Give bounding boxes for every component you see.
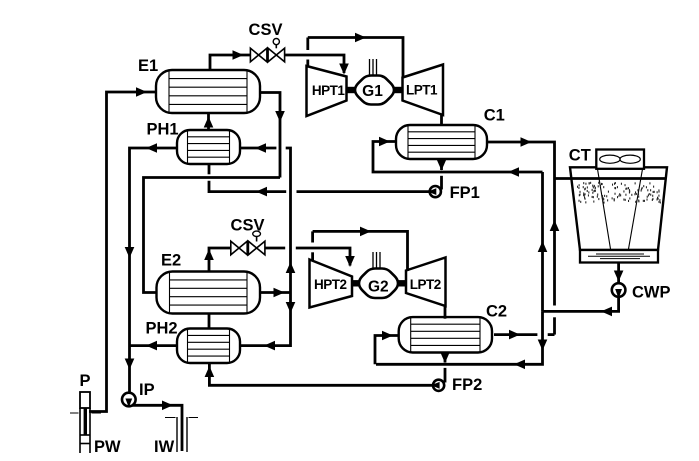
cooling tower spray dots <box>577 182 661 204</box>
arrow PH1 out <box>146 143 157 153</box>
arrow E2 out <box>274 288 285 298</box>
svg-text:FP2: FP2 <box>452 376 482 394</box>
cooling tower basin <box>580 250 658 263</box>
label LPT2 <box>410 277 441 292</box>
svg-text:FP1: FP1 <box>450 184 480 202</box>
wire FP1 to PH1 left seg <box>209 181 286 192</box>
label PH2 <box>146 320 178 338</box>
svg-text:LPT2: LPT2 <box>410 277 441 292</box>
wire crossover 1 <box>308 38 403 79</box>
label P <box>80 372 91 390</box>
shaft HPT2-G2 <box>352 280 359 286</box>
wire tower to CWP <box>617 263 620 284</box>
label FP2 <box>452 376 482 394</box>
pump FP1 <box>428 186 441 197</box>
wire E2 top stub <box>209 248 231 272</box>
wire E1 top to CSV1 <box>210 55 250 70</box>
wire brine riser to PH1 <box>286 148 291 293</box>
arrow brine down lower <box>125 359 135 370</box>
arrow brine drop down <box>286 302 296 313</box>
wire into PH1 right <box>241 147 276 150</box>
well PW divider 2 <box>80 443 90 445</box>
cooling tower fill funnel right <box>629 169 643 249</box>
ground line IW left <box>165 417 176 419</box>
CSV1 actuator <box>273 39 279 49</box>
turbine HPT2 <box>310 260 353 308</box>
arrow supply riser up <box>538 241 548 252</box>
arrow brine down upper <box>125 247 135 258</box>
wire E2 out <box>260 291 291 294</box>
arrow crossover 1 <box>355 33 366 43</box>
arrow PH1 to E1 <box>204 117 214 128</box>
svg-text:C2: C2 <box>486 302 507 320</box>
label C2 <box>486 302 507 320</box>
svg-text:PH2: PH2 <box>146 320 178 338</box>
ground line PW right <box>92 412 102 414</box>
label FP1 <box>450 184 480 202</box>
wire CW riser upper <box>553 179 556 306</box>
svg-text:CSV: CSV <box>249 21 283 39</box>
arrow E1-to-CSV1 <box>233 50 244 60</box>
svg-text:HPT1: HPT1 <box>312 83 346 98</box>
generator G2 brushes <box>373 252 380 268</box>
wire tower header <box>555 177 666 180</box>
well PW casing left <box>79 408 81 453</box>
svg-text:CSV: CSV <box>231 216 265 234</box>
wire HPT1 exhaust stub lower <box>306 60 309 67</box>
arrow brine into E1 <box>136 87 147 97</box>
label E2 <box>161 252 181 270</box>
arrow into HPT2 <box>345 256 355 267</box>
wire LPT2 to C2 <box>444 305 447 319</box>
arrow CWP out <box>601 307 612 317</box>
wire E2 to PH2 stub <box>208 314 211 329</box>
wire C2 to FP2 lower <box>444 368 447 383</box>
arrow C1 out <box>521 137 532 147</box>
arrow E1 out <box>275 111 285 122</box>
generator G1 <box>355 76 394 105</box>
label HPT1 <box>312 83 346 98</box>
wire C2 to FP2 upper <box>444 352 447 363</box>
arrow into HPT1 <box>339 64 349 75</box>
cooling tower fill funnel left <box>598 169 611 249</box>
arrow into PH1 <box>255 143 266 153</box>
wire HPT1 exhaust stub upper <box>306 38 309 51</box>
condenser C2 <box>399 317 492 352</box>
label HPT2 <box>314 277 347 292</box>
condenser C1 <box>396 125 487 159</box>
svg-text:LPT1: LPT1 <box>406 83 438 98</box>
turbine LPT2 <box>406 258 446 307</box>
label G2 <box>368 278 389 295</box>
well PW casing right <box>89 408 91 453</box>
arrow C2 to FP2 <box>440 352 450 363</box>
well IW casing left <box>176 417 178 452</box>
arrow IP to IW <box>162 401 173 411</box>
wire C2 out seg1 <box>494 333 537 336</box>
arrow C2 out <box>509 330 520 340</box>
wire P riser to E1 <box>89 92 155 412</box>
arrow into PH2 <box>264 341 275 351</box>
arrow crossover 2 <box>360 227 371 237</box>
pump P box <box>80 392 90 408</box>
ground line PW left <box>70 412 79 414</box>
wire CW corner up to C2 <box>375 336 398 365</box>
label CT <box>569 147 591 165</box>
wire C1 to FP1 lower <box>440 176 443 190</box>
label CSV1 <box>249 21 283 39</box>
basin water line 1 <box>596 253 644 255</box>
control valve CSV2b <box>248 241 265 255</box>
svg-text:PW: PW <box>94 438 121 456</box>
CSV2 actuator <box>253 231 261 241</box>
well PW tubing <box>84 408 87 435</box>
wire supply riser to C1 <box>541 172 544 311</box>
wire PH1 out to IP <box>130 148 178 392</box>
arrow CW into C1 <box>379 137 390 147</box>
svg-text:CWP: CWP <box>632 284 671 302</box>
wire PH2 out <box>131 344 178 347</box>
wire brine E1 to E2 <box>144 178 281 293</box>
wire E1 out down <box>260 93 280 178</box>
svg-text:C1: C1 <box>484 107 505 125</box>
wire HPT2 exhaust stub lower <box>311 252 314 261</box>
cooling tower fan blade right <box>620 155 640 163</box>
well PW divider 1 <box>80 434 90 436</box>
arrow FP2 to PH2 <box>205 366 215 377</box>
basin water line 3 <box>600 258 640 260</box>
pump CWP <box>612 283 626 299</box>
cooling tower body <box>570 167 667 250</box>
wire CWP down to corner <box>543 297 619 311</box>
label G1 <box>362 83 383 100</box>
label PW <box>94 438 121 456</box>
control valve CSV1b <box>268 48 285 62</box>
label CWP <box>632 284 671 302</box>
svg-text:E1: E1 <box>138 57 158 75</box>
wire FP2 to PH2 <box>209 363 432 385</box>
generator G2 <box>359 269 398 299</box>
shaft HPT1-G1 <box>347 87 356 93</box>
arrow C1 to FP1 <box>437 160 447 171</box>
svg-text:CT: CT <box>569 147 591 165</box>
label IW <box>154 438 175 456</box>
svg-text:G2: G2 <box>368 278 389 295</box>
arrow brine riser up <box>286 262 296 273</box>
turbine HPT1 <box>307 66 347 116</box>
well IW casing right <box>186 417 188 452</box>
svg-text:PH1: PH1 <box>147 121 179 139</box>
arrow CW supply C2 horiz <box>514 360 525 370</box>
preheater PH1 <box>177 130 240 164</box>
pump FP2 <box>431 380 444 391</box>
evaporator E2 <box>157 272 261 314</box>
label LPT1 <box>406 83 438 98</box>
svg-text:G1: G1 <box>362 83 383 100</box>
arrow E2 top <box>204 249 214 260</box>
arrow PH2 out <box>146 341 157 351</box>
wire CW supply to C1 <box>373 142 543 173</box>
turbine LPT1 <box>403 65 444 116</box>
wire IP to IW <box>132 405 182 451</box>
shaft G1-LPT1 <box>394 87 403 93</box>
pump IP <box>122 393 136 408</box>
arrow into CWP <box>614 271 624 282</box>
arrow CW into C2 <box>382 331 393 341</box>
wire C1 out to riser <box>487 142 555 179</box>
svg-text:IW: IW <box>154 438 175 456</box>
wire CW riser lower <box>553 317 556 334</box>
svg-text:P: P <box>80 372 91 390</box>
stop valve CSV2a <box>231 241 247 255</box>
wire LPT1 to C1 <box>440 114 443 127</box>
label IP <box>139 381 155 399</box>
svg-text:IP: IP <box>139 381 155 399</box>
wire PH1 bottom stub <box>208 164 211 174</box>
wire brine drop to PH2 <box>241 293 291 346</box>
wire CSV2 to HPT2 seg1 <box>265 247 285 250</box>
label E1 <box>138 57 158 75</box>
wire C1 to FP1 upper <box>440 159 443 170</box>
ground line IW right <box>189 417 199 419</box>
arrow CW riser up <box>550 220 560 231</box>
shaft G2-LPT2 <box>398 280 406 286</box>
arrow FP1 to PH1 <box>256 187 267 197</box>
preheater PH2 <box>177 329 240 364</box>
evaporator E1 <box>156 70 260 113</box>
wire supply drop to C2 <box>376 311 543 364</box>
label CSV2 <box>231 216 265 234</box>
arrow supply drop down <box>538 340 548 351</box>
svg-text:E2: E2 <box>161 252 181 270</box>
wire FP1 to PH1 right seg <box>297 190 430 193</box>
cooling tower fan blade left <box>600 155 620 163</box>
wire crossover 2 <box>313 231 408 271</box>
wire C2 out seg2 <box>548 333 555 336</box>
cooling tower fan box <box>596 150 644 169</box>
generator G1 brushes <box>370 59 377 75</box>
arrow CW supply C1 horiz <box>508 167 519 177</box>
basin water line 2 <box>588 255 650 257</box>
wire CSV1 to HPT1 <box>285 55 344 73</box>
svg-text:HPT2: HPT2 <box>314 277 347 292</box>
wire HPT2 exhaust stub upper <box>311 231 314 242</box>
stop valve CSV1a <box>250 48 267 62</box>
wire CSV2 to HPT2 seg2 <box>296 248 350 266</box>
label C1 <box>484 107 505 125</box>
wire PH1 to E1 <box>207 113 210 130</box>
label PH1 <box>147 121 179 139</box>
